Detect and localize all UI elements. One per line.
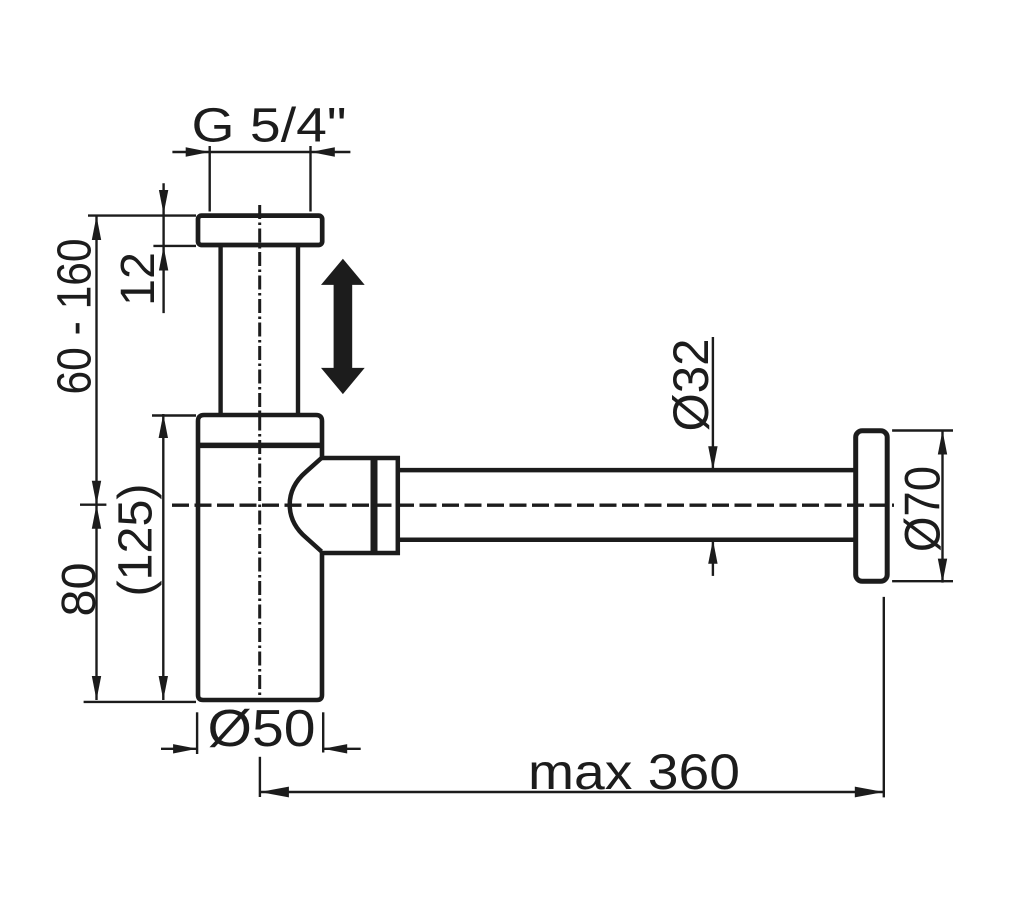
- svg-text:max 360: max 360: [528, 744, 740, 800]
- svg-text:Ø32: Ø32: [663, 339, 719, 432]
- svg-text:60 - 160: 60 - 160: [49, 239, 102, 395]
- svg-text:(125): (125): [110, 484, 163, 597]
- svg-text:Ø50: Ø50: [208, 700, 316, 758]
- svg-text:12: 12: [112, 252, 165, 306]
- svg-text:G 5/4": G 5/4": [192, 100, 347, 153]
- svg-text:Ø70: Ø70: [895, 466, 951, 552]
- svg-text:80: 80: [53, 563, 106, 617]
